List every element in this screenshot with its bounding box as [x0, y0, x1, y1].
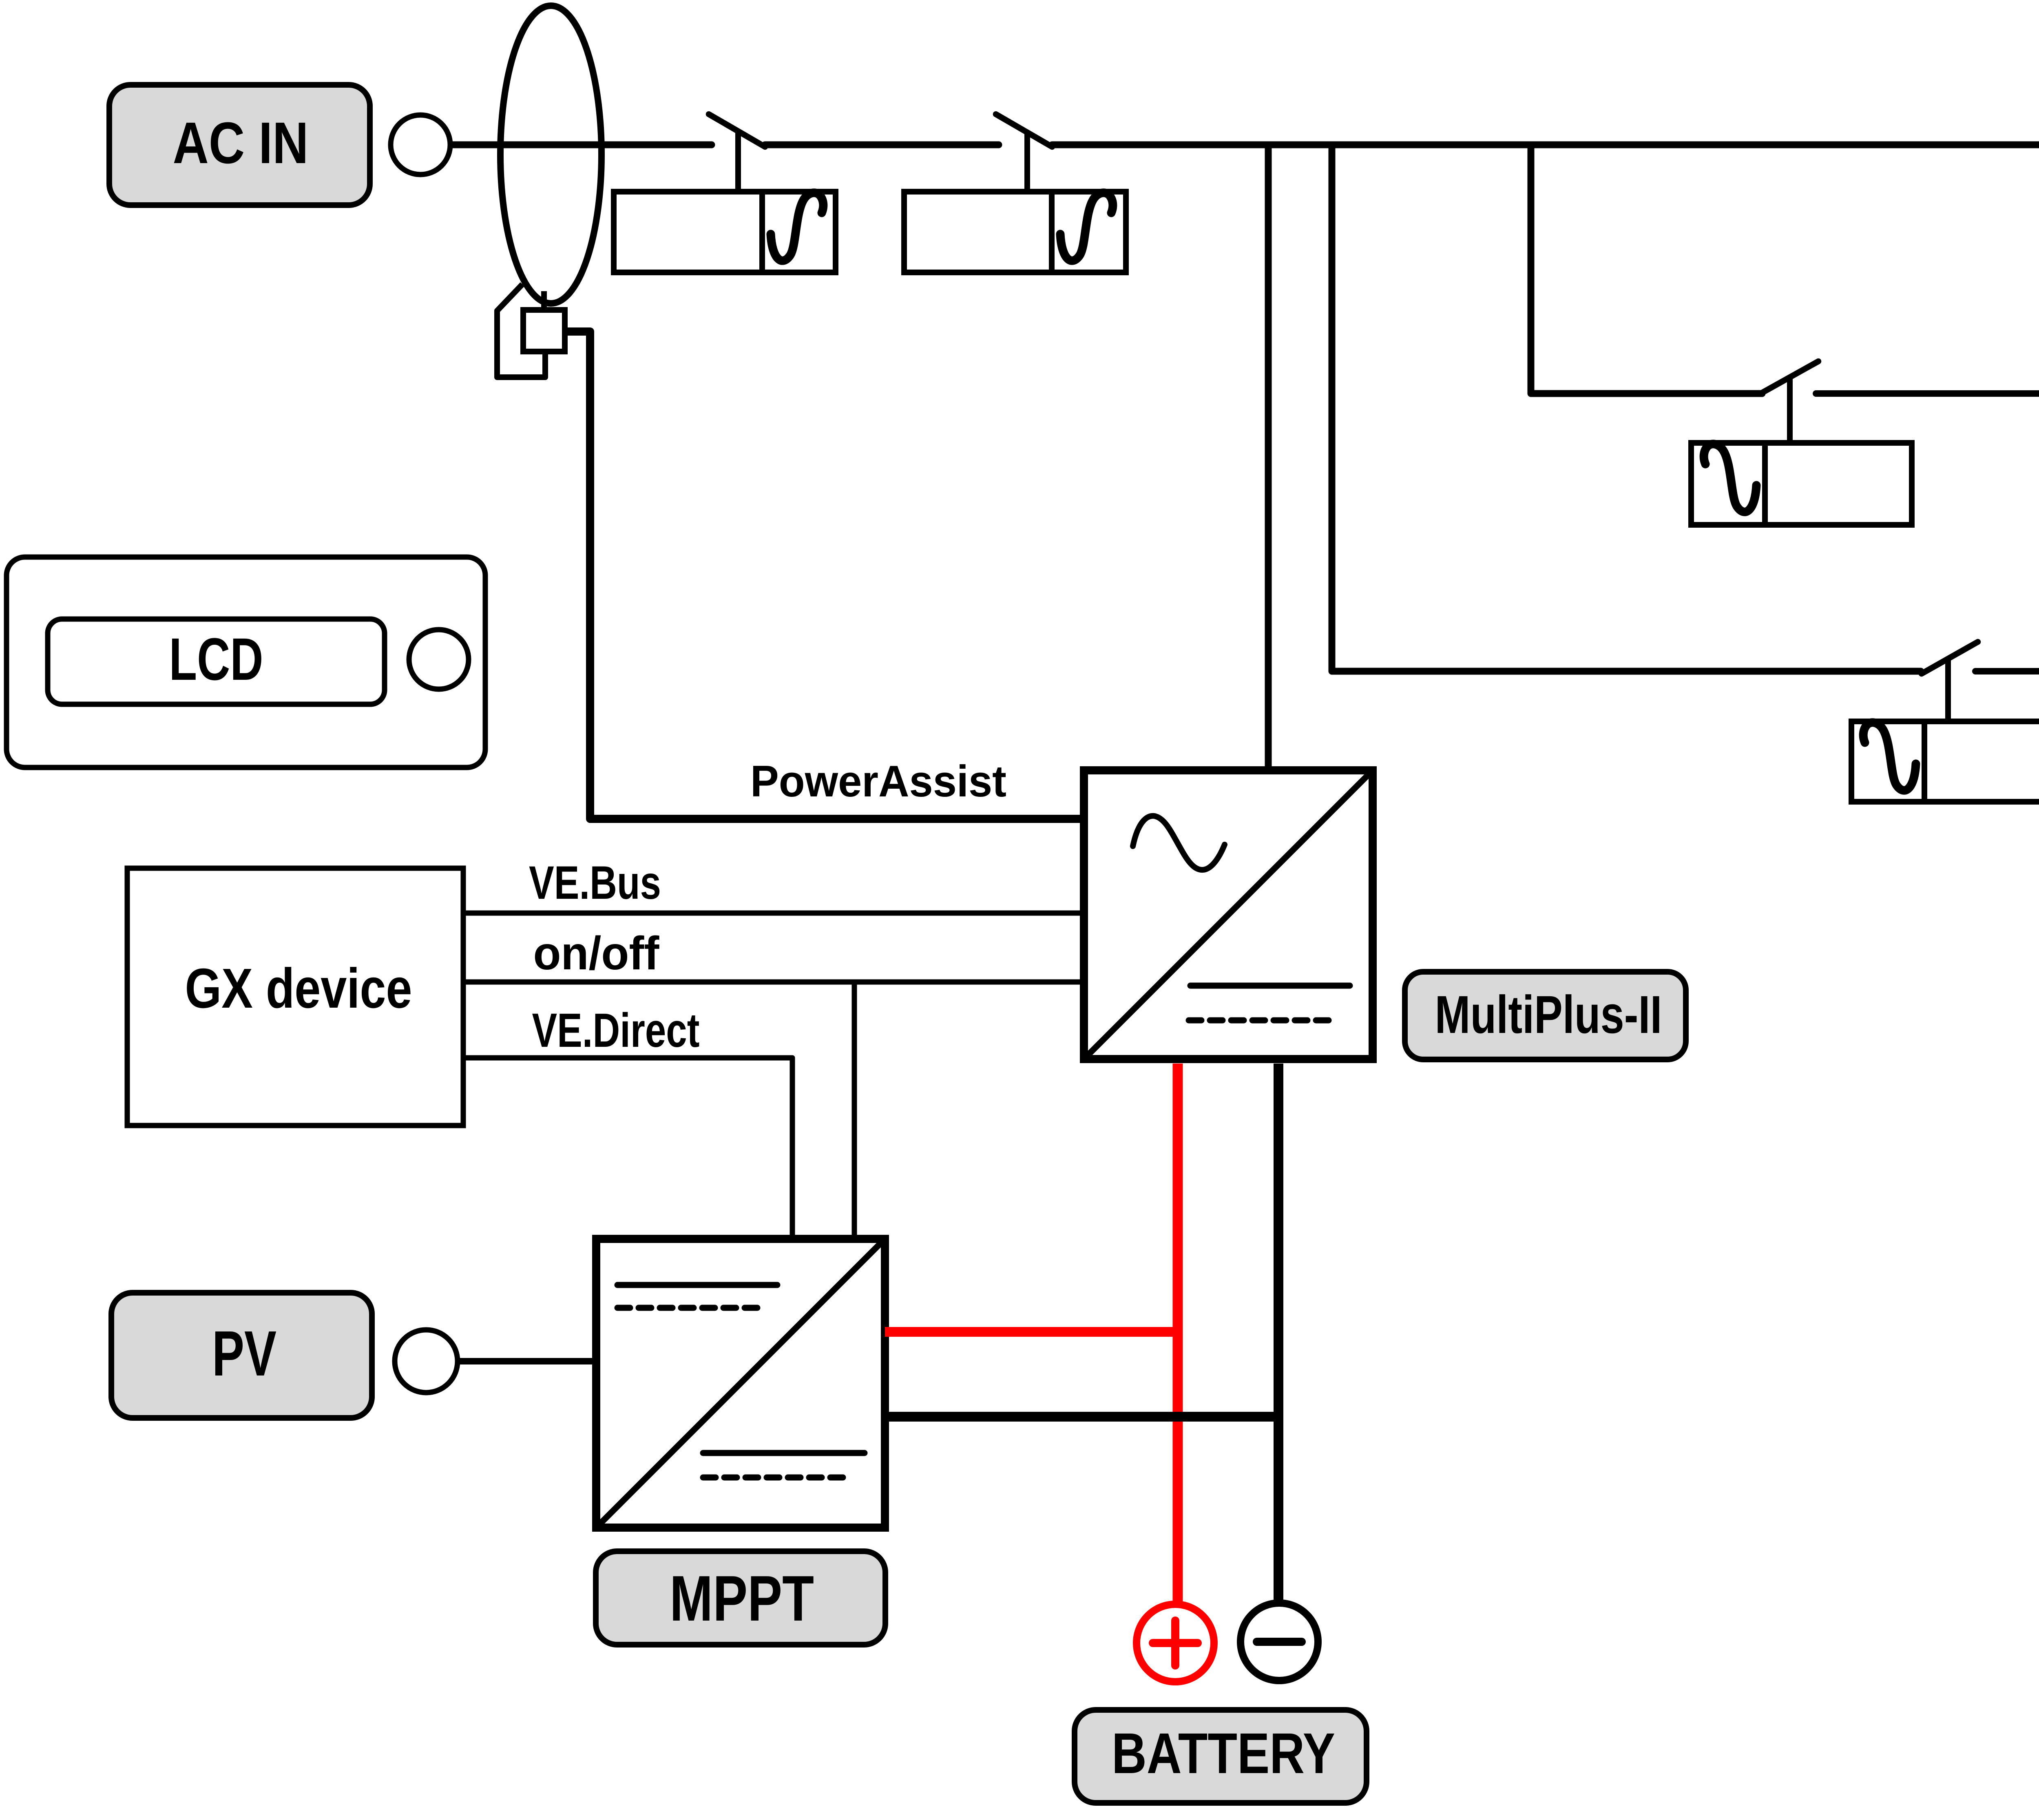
svg-text:VE.Direct: VE.Direct — [532, 1004, 700, 1057]
svg-text:MPPT: MPPT — [670, 1563, 814, 1634]
svg-text:BATTERY: BATTERY — [1112, 1721, 1335, 1785]
svg-text:GX device: GX device — [185, 957, 412, 1020]
svg-text:on/off: on/off — [533, 927, 660, 980]
svg-text:LCD: LCD — [169, 626, 263, 693]
svg-text:VE.Bus: VE.Bus — [529, 857, 661, 909]
svg-text:MultiPlus-II: MultiPlus-II — [1435, 984, 1662, 1044]
svg-text:AC IN: AC IN — [173, 110, 309, 176]
svg-text:PV: PV — [212, 1318, 276, 1389]
svg-text:PowerAssist: PowerAssist — [750, 756, 1006, 806]
